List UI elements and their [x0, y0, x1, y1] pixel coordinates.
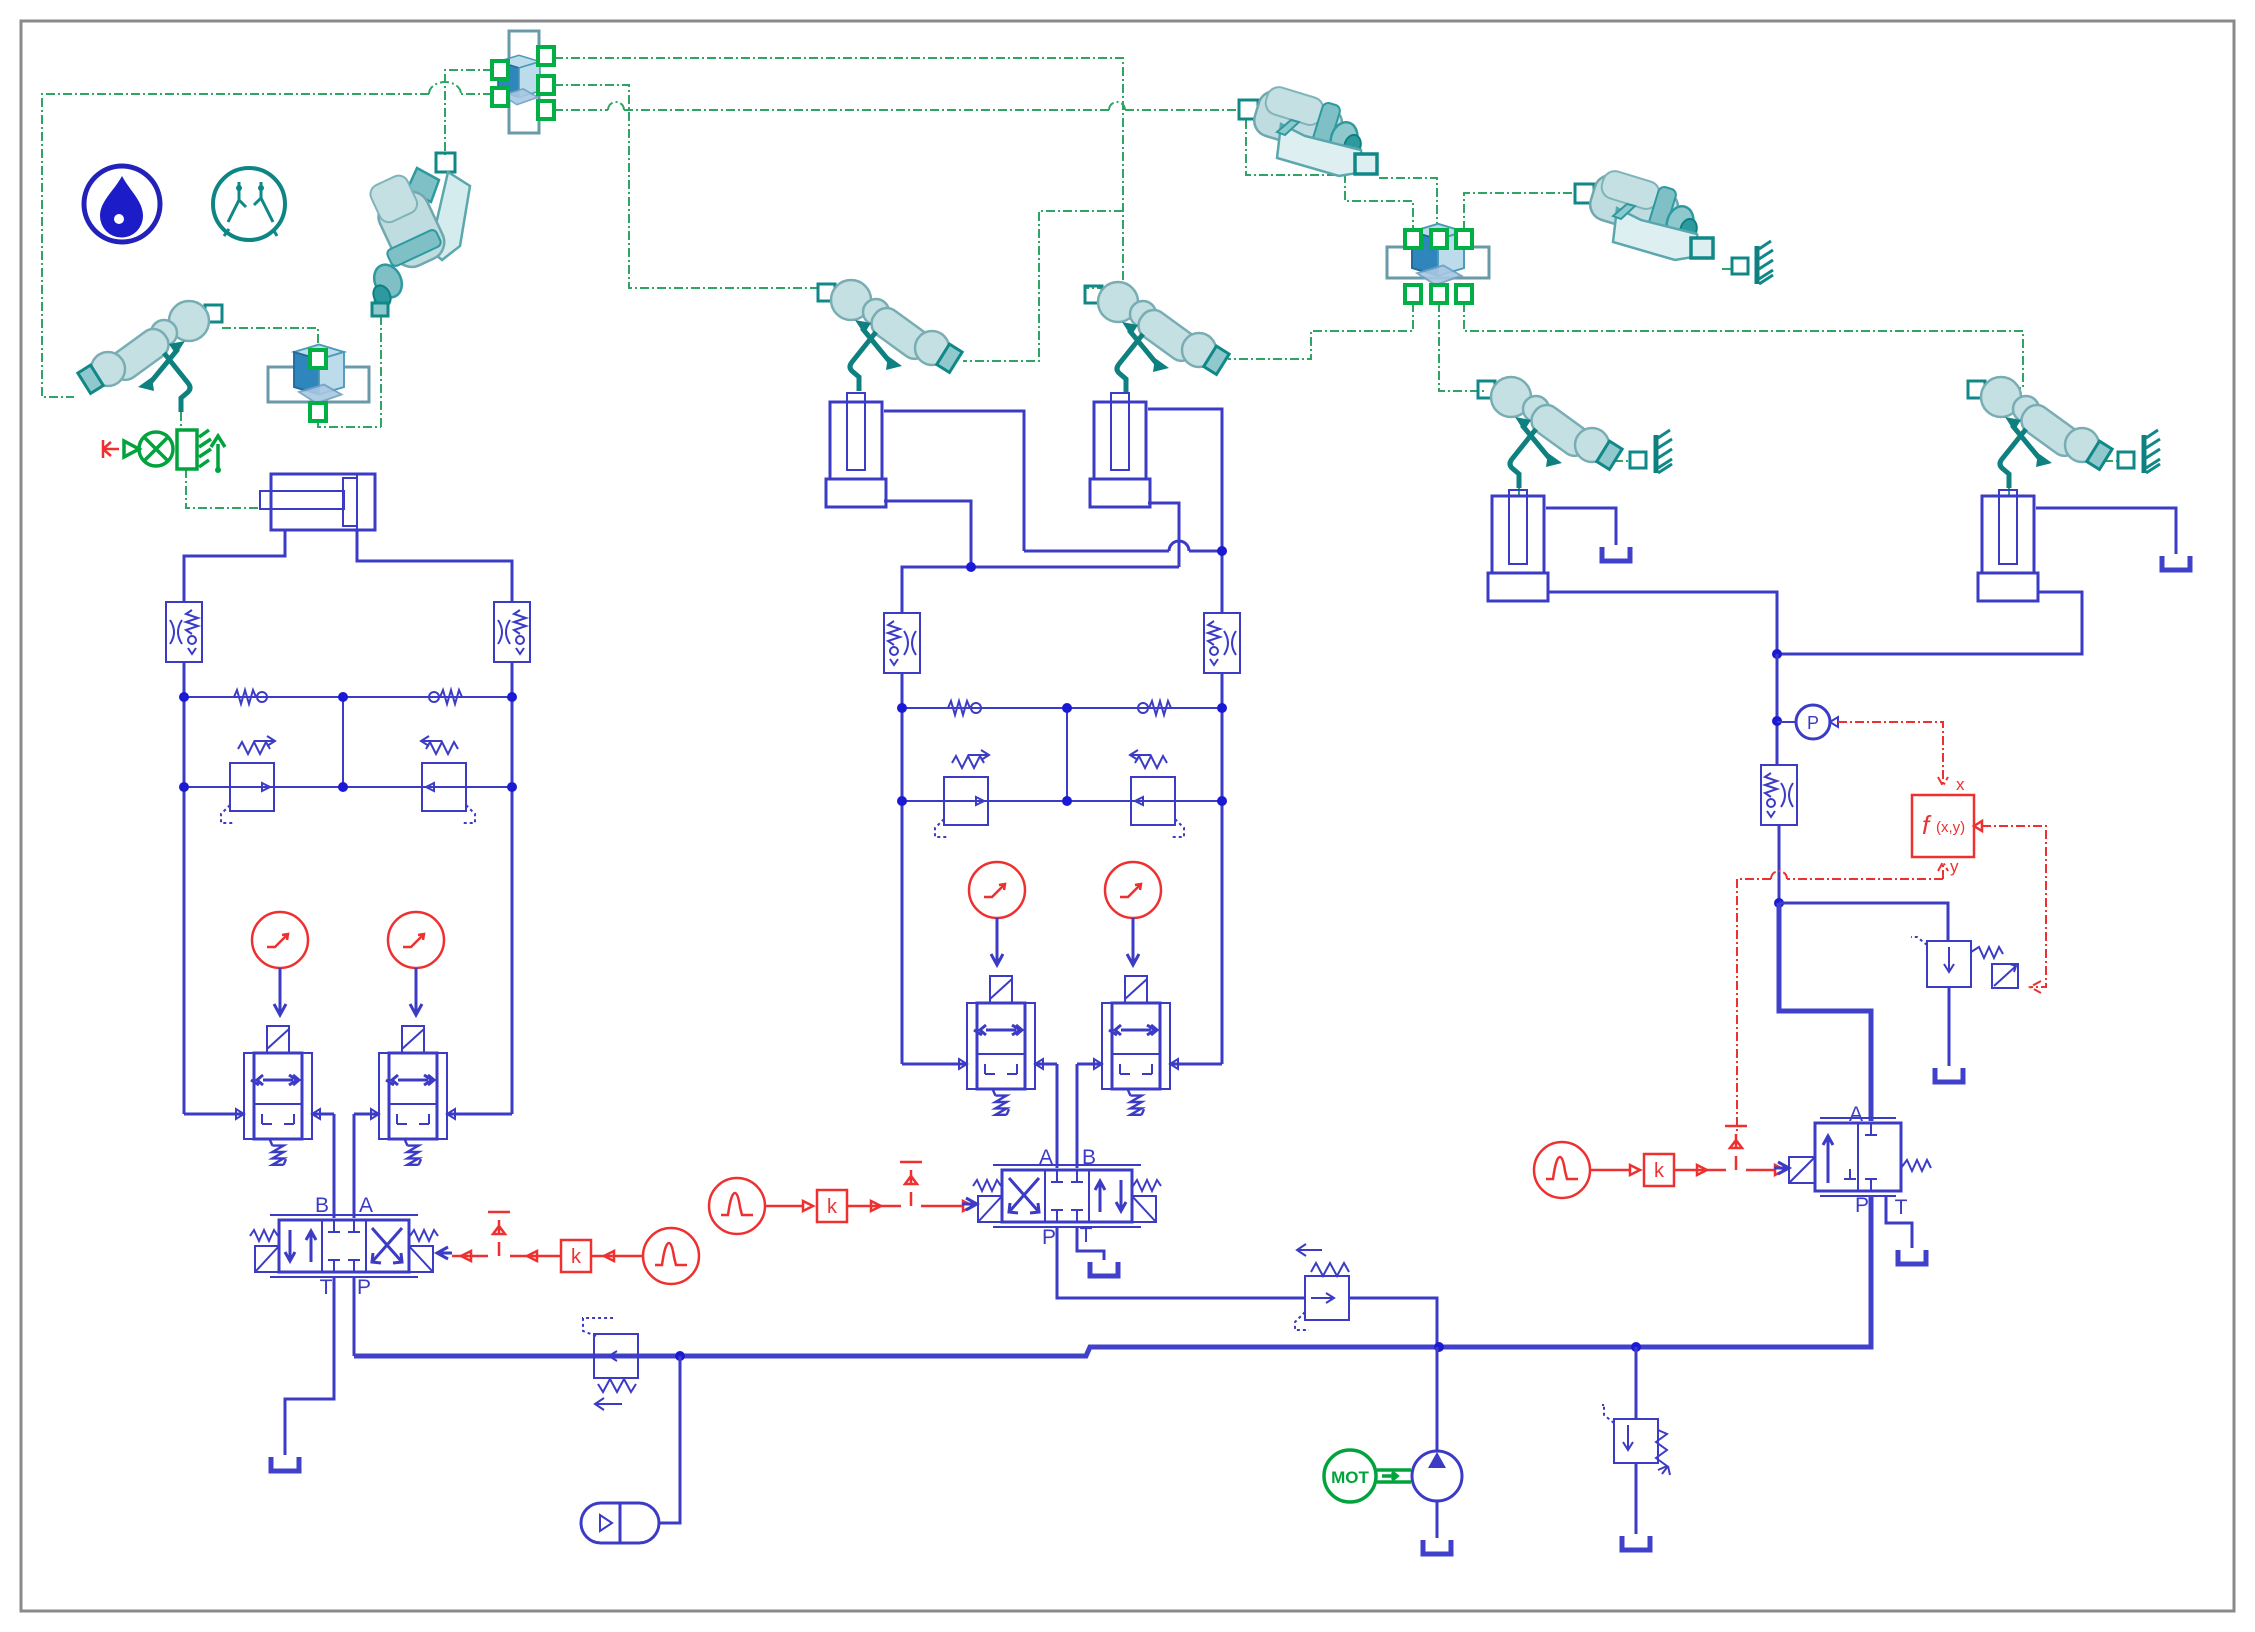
signal source circle DV-M [709, 1178, 765, 1234]
wire: DV-M T port to tank [1077, 1227, 1104, 1260]
spring check M2 [1138, 701, 1171, 715]
wire: J1 bottom right port to body1 left connector [554, 109, 1237, 111]
compensator valve L2 [421, 736, 475, 823]
wire: merge node down to sensor tap [1776, 654, 1779, 765]
wire: right main M [1221, 673, 1224, 1064]
stopper T DV-R (fed from f(x,y)) [1725, 1126, 1747, 1170]
compensator valve M1 [935, 750, 989, 837]
wire: center branch down [342, 700, 344, 787]
wire: cross link with hop to node [1024, 550, 1222, 553]
tank below DV-L [271, 1457, 299, 1471]
wire: branch to relief V4 [1779, 903, 1948, 941]
wire: R1 bottom port to merge node [1549, 592, 1777, 654]
relief valve V3 (system) [1602, 1405, 1670, 1475]
wire: J1 lower-left port long left loop to arm L [42, 94, 492, 397]
svg-text:y: y [1950, 857, 1959, 876]
pressure sensor P [1777, 705, 1838, 739]
check valve block M2 (spring left) [1204, 613, 1240, 673]
actuator1 (tilted 3d actuator upper-left) [367, 153, 470, 316]
svg-text:MOT: MOT [1331, 1468, 1369, 1487]
wire: arm C bracket to cylinder R1 rod [1518, 488, 1520, 496]
wire: J1 top-left port to actuator1 [445, 70, 492, 155]
wire: spring cross line M [902, 707, 1222, 709]
wire: J2 bottom-middle port to arm C [1439, 303, 1484, 391]
wire: red chain to DV-M [765, 1205, 962, 1208]
svg-text:T: T [320, 1276, 333, 1299]
wire: red chain to DV-R [1590, 1169, 1774, 1172]
stopper T DV-M [900, 1162, 922, 1206]
accumulator [581, 1503, 659, 1543]
pilot valve PV1 (2/2 solenoid) [236, 1026, 320, 1165]
wire: left main M [901, 673, 904, 1064]
svg-text:T: T [1080, 1224, 1093, 1247]
arm A (middle-left ball-joint arm) [818, 280, 962, 391]
check valve block M1 (spring left) [884, 613, 920, 673]
cylinder M2 (vertical) [1090, 393, 1150, 507]
tank V4 [1935, 1068, 1963, 1082]
wire: J1 mid-left loop down to arm A end [963, 211, 1123, 361]
wall anchor of arm D [2118, 430, 2160, 473]
signal source circle DV-L [643, 1228, 699, 1284]
wire: PV2 right port to right main [447, 1113, 512, 1116]
node dots left group [179, 692, 189, 702]
arm L (mirrored ball-joint arm, lower left) [78, 301, 222, 412]
wire: bus to PV1 left port [184, 1113, 244, 1116]
wire: node up to M2 top port [1148, 409, 1222, 551]
junction block J2 (6-way mechanical node) [1387, 224, 1489, 303]
arm D (right group right arm) [1968, 377, 2112, 488]
shaft motor-pump [1377, 1470, 1411, 1482]
port letters DV-L [315, 1194, 373, 1299]
wire: compensator cross line M [902, 800, 1222, 802]
directional valve DV-R (3/2) [1789, 1118, 1931, 1196]
tank DV-R [1898, 1250, 1926, 1264]
wire: PV1 right port to B line [312, 1113, 334, 1116]
svg-text:P: P [1855, 1194, 1869, 1217]
check valve block L1 [166, 602, 202, 662]
wire: left main line [183, 662, 186, 1114]
wire: junction J1 top port to arm network right [554, 58, 1123, 288]
port letters DV-R [1849, 1103, 1908, 1219]
wire: J3 bottom port to actuator1 bottom [318, 305, 381, 427]
wire: K2 arrow to pilot valve [410, 968, 422, 1015]
wire: main supply bus [354, 1196, 1871, 1356]
red dash: y input loop with hop [1737, 862, 1948, 1134]
wire: arm D bracket to cylinder R2 rod [2008, 488, 2010, 496]
signal source K1 circle [252, 912, 308, 968]
cylinder R1 (vertical) [1488, 490, 1548, 601]
wall anchor of arm C [1630, 430, 1672, 473]
wire: V3 to tank [1635, 1463, 1638, 1534]
wire: arm Y bracket to green jack [181, 412, 258, 508]
junction block J1 (3-way mechanical node) [492, 31, 554, 133]
node dots M [897, 703, 907, 713]
node dot branch [1774, 898, 1784, 908]
oil drop icon [84, 166, 160, 242]
arm C (right group left arm) [1478, 377, 1622, 488]
wire: compensator cross line [184, 786, 512, 788]
body1 actuator (top middle-right) [1239, 82, 1377, 176]
node: accumulator branch [675, 1351, 685, 1361]
signal source K4 circle [1105, 862, 1161, 918]
wire: arm C end link to wall anchor [1614, 460, 1628, 462]
relief valve V1 on left bus [583, 1318, 638, 1410]
node dots on bus [1434, 1342, 1444, 1352]
gain box k DV-R [1644, 1154, 1674, 1186]
compensator valve M2 [1130, 750, 1184, 837]
wire: pump riser [1436, 1347, 1439, 1451]
wire: cylinder L right port down to check L2 [357, 530, 512, 602]
wire: J2 bottom-right port long right to arm D [1464, 303, 2023, 388]
relief valve V2 on P line [1295, 1244, 1349, 1330]
wire: DV-L T port to tank [285, 1277, 334, 1455]
node dots M cylinders [1217, 546, 1227, 556]
svg-text:A: A [1039, 1146, 1053, 1169]
tank V3 [1622, 1536, 1650, 1550]
hydraulic pump [1412, 1451, 1462, 1501]
wall anchor of body2 [1732, 241, 1773, 284]
signal source K2 circle [388, 912, 444, 968]
svg-text:x: x [1956, 775, 1965, 794]
wire: arm L top connector to junction J3 [222, 328, 318, 350]
wire: J2 top-right port to body2 [1464, 193, 1575, 230]
wire: K1 arrow to pilot valve [274, 968, 286, 1015]
pilot valve PV3 [959, 976, 1043, 1115]
wire: body2 end link to wall anchor [1722, 268, 1732, 270]
wire: cross line with spring checks [184, 696, 512, 698]
wire: V2 out to bus node [1349, 1298, 1437, 1347]
arm B (middle-right ball-joint arm) [1085, 282, 1229, 393]
wire: A vertical to valve [353, 1114, 356, 1218]
wire: check R down to branch node [1778, 825, 1781, 903]
spring check L1 [234, 690, 267, 704]
wire: red chain left [452, 1255, 643, 1258]
wire: B vertical to valve [333, 1114, 336, 1218]
wire: K3 arrow [991, 918, 1003, 965]
wire: branch down to accumulator [659, 1356, 680, 1523]
stopper T DV-L [488, 1212, 510, 1256]
signal source K3 circle [969, 862, 1025, 918]
blue arrow into DV-R [1774, 1162, 1789, 1174]
tank R1 [1602, 547, 1630, 561]
wire: body1 right connector to junction J2 [1379, 178, 1437, 230]
wire: K4 arrow [1127, 918, 1139, 965]
red dash: f(x,y) output to relief pilot [1982, 826, 2046, 993]
tank R2 [2162, 556, 2190, 570]
directional valve DV-L (4/3, left group) [250, 1215, 438, 1277]
svg-text:(x,y): (x,y) [1936, 819, 1965, 836]
wire: M1 top port to right main top [884, 411, 1024, 551]
pilot valve PV4 [1094, 976, 1178, 1115]
svg-text:B: B [315, 1194, 329, 1217]
wire: A/B verticals M [1057, 1064, 1077, 1168]
cylinder R2 (vertical) [1978, 490, 2038, 601]
wire: M2 bottom port jog [1148, 503, 1179, 567]
svg-text:A: A [1849, 1103, 1863, 1126]
wire: R2 top port to tank [2036, 508, 2176, 554]
node dot merge [1772, 649, 1782, 659]
svg-text:P: P [357, 1276, 371, 1299]
wire: arm D end link to wall anchor [2104, 460, 2118, 462]
wire: bus M segments [902, 1063, 1222, 1066]
kinematics icon [213, 168, 285, 240]
wire: cylinder L left port down to check L1 [184, 530, 285, 602]
body2 actuator (top right, anchored) [1575, 166, 1713, 260]
svg-text:P: P [1807, 713, 1819, 733]
electric motor MOT [1324, 1450, 1376, 1502]
tank pump [1423, 1540, 1451, 1554]
pilot valve PV2 (2/2 solenoid) [371, 1026, 455, 1165]
cylinder M1 (vertical) [826, 393, 886, 507]
wire: main down to valve A port (heavy) [1779, 903, 1871, 1121]
port letters DV-M [1039, 1146, 1096, 1249]
spring check M1 [948, 701, 981, 715]
wire: J2 bottom-left port to arm B end [1228, 303, 1413, 359]
wire: R2 bottom port to merge node [1777, 592, 2082, 654]
directional valve DV-M (4/3, mirrored) [973, 1165, 1161, 1227]
node dot sensor tap [1772, 716, 1782, 726]
wire: DV-R T port to tank [1886, 1196, 1912, 1248]
cylinder L (horizontal jack) [260, 474, 375, 530]
green jack / force transducer chain [103, 430, 225, 473]
check valve block L2 [494, 602, 530, 662]
blue arrow into DV-L [437, 1247, 452, 1259]
wire: body1 left connector loop to J2 top-left port [1246, 120, 1413, 230]
svg-text:A: A [359, 1194, 373, 1217]
svg-text:T: T [1895, 1196, 1908, 1219]
wire: DV-L P port down to supply bus [353, 1277, 356, 1356]
tank below DV-M [1090, 1262, 1118, 1276]
check valve block R (on drop line) [1761, 765, 1797, 825]
relief valve V4 (pilot proportional) [1911, 937, 2018, 988]
function block f(x,y) [1912, 795, 1982, 857]
wire: V3 riser [1635, 1347, 1638, 1419]
signal source circle DV-R [1534, 1142, 1590, 1198]
blue arrow into DV-M [962, 1198, 977, 1210]
wire: pump suction to tank [1436, 1501, 1439, 1538]
wire: center branch M [1066, 711, 1068, 801]
svg-text:P: P [1042, 1226, 1056, 1249]
wire: J1 middle right port to vertical x629 to arm A [554, 85, 818, 288]
gain box k DV-L [561, 1240, 591, 1272]
svg-text:B: B [1082, 1146, 1096, 1169]
gain box k DV-M [817, 1190, 847, 1222]
spring check L2 [429, 690, 462, 704]
wire: node down to check M2 [1221, 551, 1224, 613]
wire: DV-M P port to relief V2 [1057, 1227, 1305, 1298]
wire: M1 bottom port to left check [884, 501, 1179, 613]
red dash: sensor to f(x,y) x input [1838, 722, 1948, 786]
wire: right main line [511, 662, 514, 1114]
wire: R1 top port to tank [1546, 508, 1616, 545]
wire: A line to PV2 left port [354, 1113, 379, 1116]
compensator valve L1 [221, 736, 275, 823]
wire: actuator1 green stub [374, 300, 379, 305]
wire: V4 to tank [1948, 987, 1951, 1066]
junction block J3 (2-way mechanical node) [268, 345, 369, 422]
